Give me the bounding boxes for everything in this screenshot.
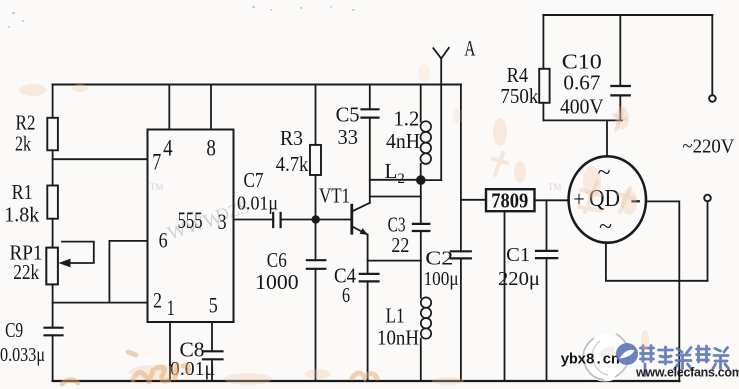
capacitor C2 <box>451 251 471 258</box>
wire 7809 input left <box>461 199 486 201</box>
wire right rail corner down <box>460 85 462 200</box>
wire pin1 to ground <box>169 322 171 381</box>
bridge rectifier QD <box>569 156 646 242</box>
svg-text:~: ~ <box>599 214 612 240</box>
wire top supply rail <box>53 84 461 86</box>
faint scan artifacts <box>19 64 649 385</box>
svg-text:1: 1 <box>167 295 175 320</box>
node L2 antenna junction <box>416 175 426 185</box>
watermark elecfans logo <box>616 343 638 365</box>
antenna A <box>433 48 449 180</box>
wire R1 to RP1 <box>52 219 54 248</box>
inductor L2 <box>421 121 432 164</box>
wire node to antenna <box>421 179 441 181</box>
wire C4 top <box>367 261 369 274</box>
svg-text:TM: TM <box>150 182 164 192</box>
svg-text:400V: 400V <box>560 95 604 119</box>
wire C10 top <box>619 15 621 86</box>
svg-text:C5: C5 <box>336 103 360 127</box>
svg-text:1000: 1000 <box>255 270 299 294</box>
wire pin6 <box>109 240 147 242</box>
svg-text:6: 6 <box>342 283 350 307</box>
svg-text:5: 5 <box>209 293 218 318</box>
wire emitter down <box>367 235 369 261</box>
capacitor C3 <box>413 224 429 231</box>
wire mains top rail <box>543 14 712 16</box>
svg-text:C1: C1 <box>506 244 530 266</box>
arrow RP1 wiper <box>59 259 71 268</box>
svg-text:7: 7 <box>152 150 161 175</box>
wire ground rail <box>53 380 680 382</box>
svg-text:8: 8 <box>206 136 216 161</box>
svg-text:www.elecfans.com: www.elecfans.com <box>635 366 739 380</box>
wire QD top feed <box>606 120 608 156</box>
wire RC loop bottom <box>543 119 622 121</box>
wire L2 top <box>420 85 422 122</box>
wire C5 top <box>369 85 371 110</box>
watermark ybx8.cn swirl <box>561 334 629 382</box>
wire pin5 <box>211 322 213 351</box>
svg-text:ybx8.cn: ybx8.cn <box>561 352 620 369</box>
resistor R3 <box>310 145 321 175</box>
wire pin7 <box>53 158 148 160</box>
svg-text:7809: 7809 <box>491 189 528 213</box>
wire C5 bottom / collector node <box>369 118 371 203</box>
wire base <box>316 219 352 221</box>
wire C10 bottom <box>619 95 621 120</box>
wire pin6 to pin2 link <box>108 241 110 303</box>
wire mains right drop <box>711 15 713 95</box>
wire pin2 <box>53 302 148 304</box>
wire emitter node horizontal <box>368 260 421 262</box>
wire 7809 ground pin <box>504 211 506 381</box>
svg-text:0.033μ: 0.033μ <box>0 344 45 366</box>
capacitor C6 <box>307 260 325 269</box>
svg-text:A: A <box>464 36 475 61</box>
svg-text:~220V: ~220V <box>682 136 735 158</box>
wire L1 top <box>420 261 422 298</box>
wire C2 to ground <box>460 258 462 381</box>
svg-text:4: 4 <box>163 136 173 161</box>
svg-text:100μ: 100μ <box>424 268 459 290</box>
svg-text:C6: C6 <box>267 248 287 272</box>
capacitor C10 <box>611 86 629 95</box>
wire C6 to ground <box>315 269 317 381</box>
svg-text:33: 33 <box>338 125 359 149</box>
watermark elecfans chinese text <box>641 346 729 376</box>
wire left column top <box>52 85 54 118</box>
terminal lower ~220V <box>704 195 711 202</box>
wire QD bottom <box>606 243 708 281</box>
svg-text:2: 2 <box>153 288 162 313</box>
wire C1 top <box>546 200 548 251</box>
capacitor C8 <box>203 351 223 359</box>
svg-text:C9: C9 <box>5 318 23 342</box>
wire C2 down <box>460 200 462 252</box>
svg-text:R1: R1 <box>12 180 33 204</box>
wire pin3 <box>234 219 274 221</box>
wire collector node to C3 node <box>370 196 421 198</box>
svg-text:R3: R3 <box>280 126 303 150</box>
resistor R1 <box>47 186 58 219</box>
capacitor C5 <box>362 109 379 117</box>
svg-text:22: 22 <box>391 233 409 257</box>
node C7 R3 C6 base junction <box>312 215 320 223</box>
wire C1 to ground <box>546 258 548 381</box>
transistor VT1 <box>350 205 353 233</box>
wire collector node to antenna node <box>370 179 417 181</box>
wire R2 to R1 <box>52 150 54 185</box>
svg-text:1.8k: 1.8k <box>4 202 39 226</box>
IC 555 <box>148 130 234 323</box>
wire C9 to ground rail <box>52 335 54 381</box>
svg-text:0.67: 0.67 <box>563 71 600 95</box>
resistor R2 <box>47 118 58 151</box>
wire C4 to ground <box>367 281 369 381</box>
wire L2 bottom to node <box>420 164 422 180</box>
svg-text:750k: 750k <box>500 84 538 108</box>
wire R3 top <box>315 85 317 145</box>
wire R4 bottom <box>542 103 544 121</box>
svg-text:C7: C7 <box>244 168 264 192</box>
svg-text:2k: 2k <box>15 132 31 156</box>
svg-text:L1: L1 <box>386 304 405 328</box>
svg-text:22k: 22k <box>13 260 39 284</box>
svg-text:C2: C2 <box>425 247 453 269</box>
svg-text:1.2: 1.2 <box>393 107 419 131</box>
regulator 7809 <box>486 189 535 211</box>
svg-text:4nH: 4nH <box>386 129 420 153</box>
svg-text:VT1: VT1 <box>319 183 350 207</box>
wire R4 top <box>542 15 544 69</box>
wire node down to C3 <box>420 180 422 224</box>
wire pin8 <box>210 85 212 130</box>
capacitor C9 <box>45 328 63 336</box>
wire lower terminal down <box>707 201 709 280</box>
svg-text:10nH: 10nH <box>377 325 419 349</box>
wire C6 top <box>315 220 317 261</box>
wire 7809 right <box>535 199 569 201</box>
wire L1 to ground <box>420 339 422 381</box>
wire RP1 to C9 <box>52 284 54 327</box>
svg-text:4.7k: 4.7k <box>276 152 309 176</box>
svg-text:TM: TM <box>548 182 562 192</box>
terminal upper ~220V <box>709 95 716 102</box>
capacitor C7 <box>273 213 280 227</box>
resistor R4 <box>539 69 549 103</box>
wire pin4 <box>168 85 170 130</box>
svg-text:220μ: 220μ <box>498 268 540 290</box>
label QD minus <box>631 200 640 202</box>
wire C8 to ground <box>211 359 213 381</box>
wire C7 to node <box>281 219 316 221</box>
capacitor C4 <box>360 274 379 282</box>
wire RP1 wiper loop <box>62 242 94 263</box>
wire R3 bottom <box>315 175 317 220</box>
arrow VT1 emitter <box>360 228 369 235</box>
wire C3 to emitter node <box>420 231 422 261</box>
wire QD minus to ground <box>646 201 679 381</box>
potentiometer RP1 <box>46 248 58 285</box>
capacitor C1 <box>536 251 557 258</box>
inductor L1 <box>421 297 431 338</box>
